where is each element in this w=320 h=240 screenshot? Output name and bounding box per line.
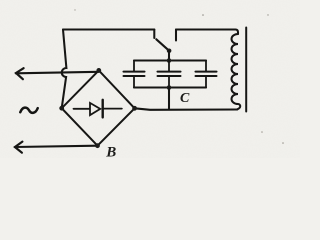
wire: switch pivot down to capacitor bank top bus [168,51,170,61]
capacitor C2 (middle): top lead [168,61,170,72]
wire: bottom rail (bridge right corner to coil bottom) [135,108,238,110]
junction dot: bridge left corner node [59,106,64,111]
svg-text:B: B [105,144,116,158]
wire: capacitor bank down to bottom rail [168,88,170,109]
wire: upper AC input lead (arrow tip to bridge top corner) [16,72,99,74]
junction dot: blade pivot [167,49,172,54]
capacitor C2: bottom plate [158,75,181,77]
wire: top rail right section to coil [176,30,238,35]
scan speck [282,142,284,144]
capacitor C2: bottom lead [168,76,170,87]
wire: lower AC input lead (arrow tip to bridge bottom corner) [15,146,98,147]
paper background [0,0,300,158]
wire: capacitor bank top bus [134,59,206,61]
junction dot: bridge right corner node [132,106,137,111]
scan speck [267,14,268,15]
paper grain [0,0,300,158]
arrow: upper input terminal arrowhead [16,68,24,79]
switch S: right fixed contact stub [175,30,177,41]
diode VD: hollow triangle [90,103,100,115]
capacitor C1 (left): top lead [133,61,135,72]
bridge rectifier B: diamond outline [62,70,135,145]
diode VD inside bridge: left lead [74,108,90,110]
switch S: left fixed contact stub [153,30,155,39]
junction dot: bridge top corner node [96,68,101,73]
junction dot: bottom bus tap [167,85,172,90]
capacitor C1: bottom lead [133,76,135,87]
diode VD: right lead [104,108,122,110]
scan speck [202,14,204,16]
capacitor C3: bottom plate [196,75,217,77]
capacitor C3: top plate [196,71,217,73]
core / secondary line [245,28,247,112]
capacitor C3 (right): top lead [205,61,207,72]
wire: capacitor bank bottom bus [134,86,206,88]
arrow: lower input terminal arrowhead [15,142,23,153]
capacitor C1: top plate [124,71,145,73]
wire: top rail left section [63,28,154,30]
capacitor C3: bottom lead [205,76,207,87]
scan speck [261,131,263,133]
diode VD: cathode bar [101,100,103,118]
scan speck [74,9,75,10]
AC source symbol ~ [20,108,37,113]
wire: left DC rail vertical with crossover hop [62,30,67,109]
capacitor C2: top plate [158,71,181,73]
inductor L: winding (7 turns) [232,34,241,109]
svg-text:C: C [180,91,190,106]
junction dot: top bus feed [167,58,172,63]
capacitor C1: bottom plate [124,75,145,77]
switch S: blade [156,39,169,51]
junction dot: bridge bottom corner node [95,143,100,148]
